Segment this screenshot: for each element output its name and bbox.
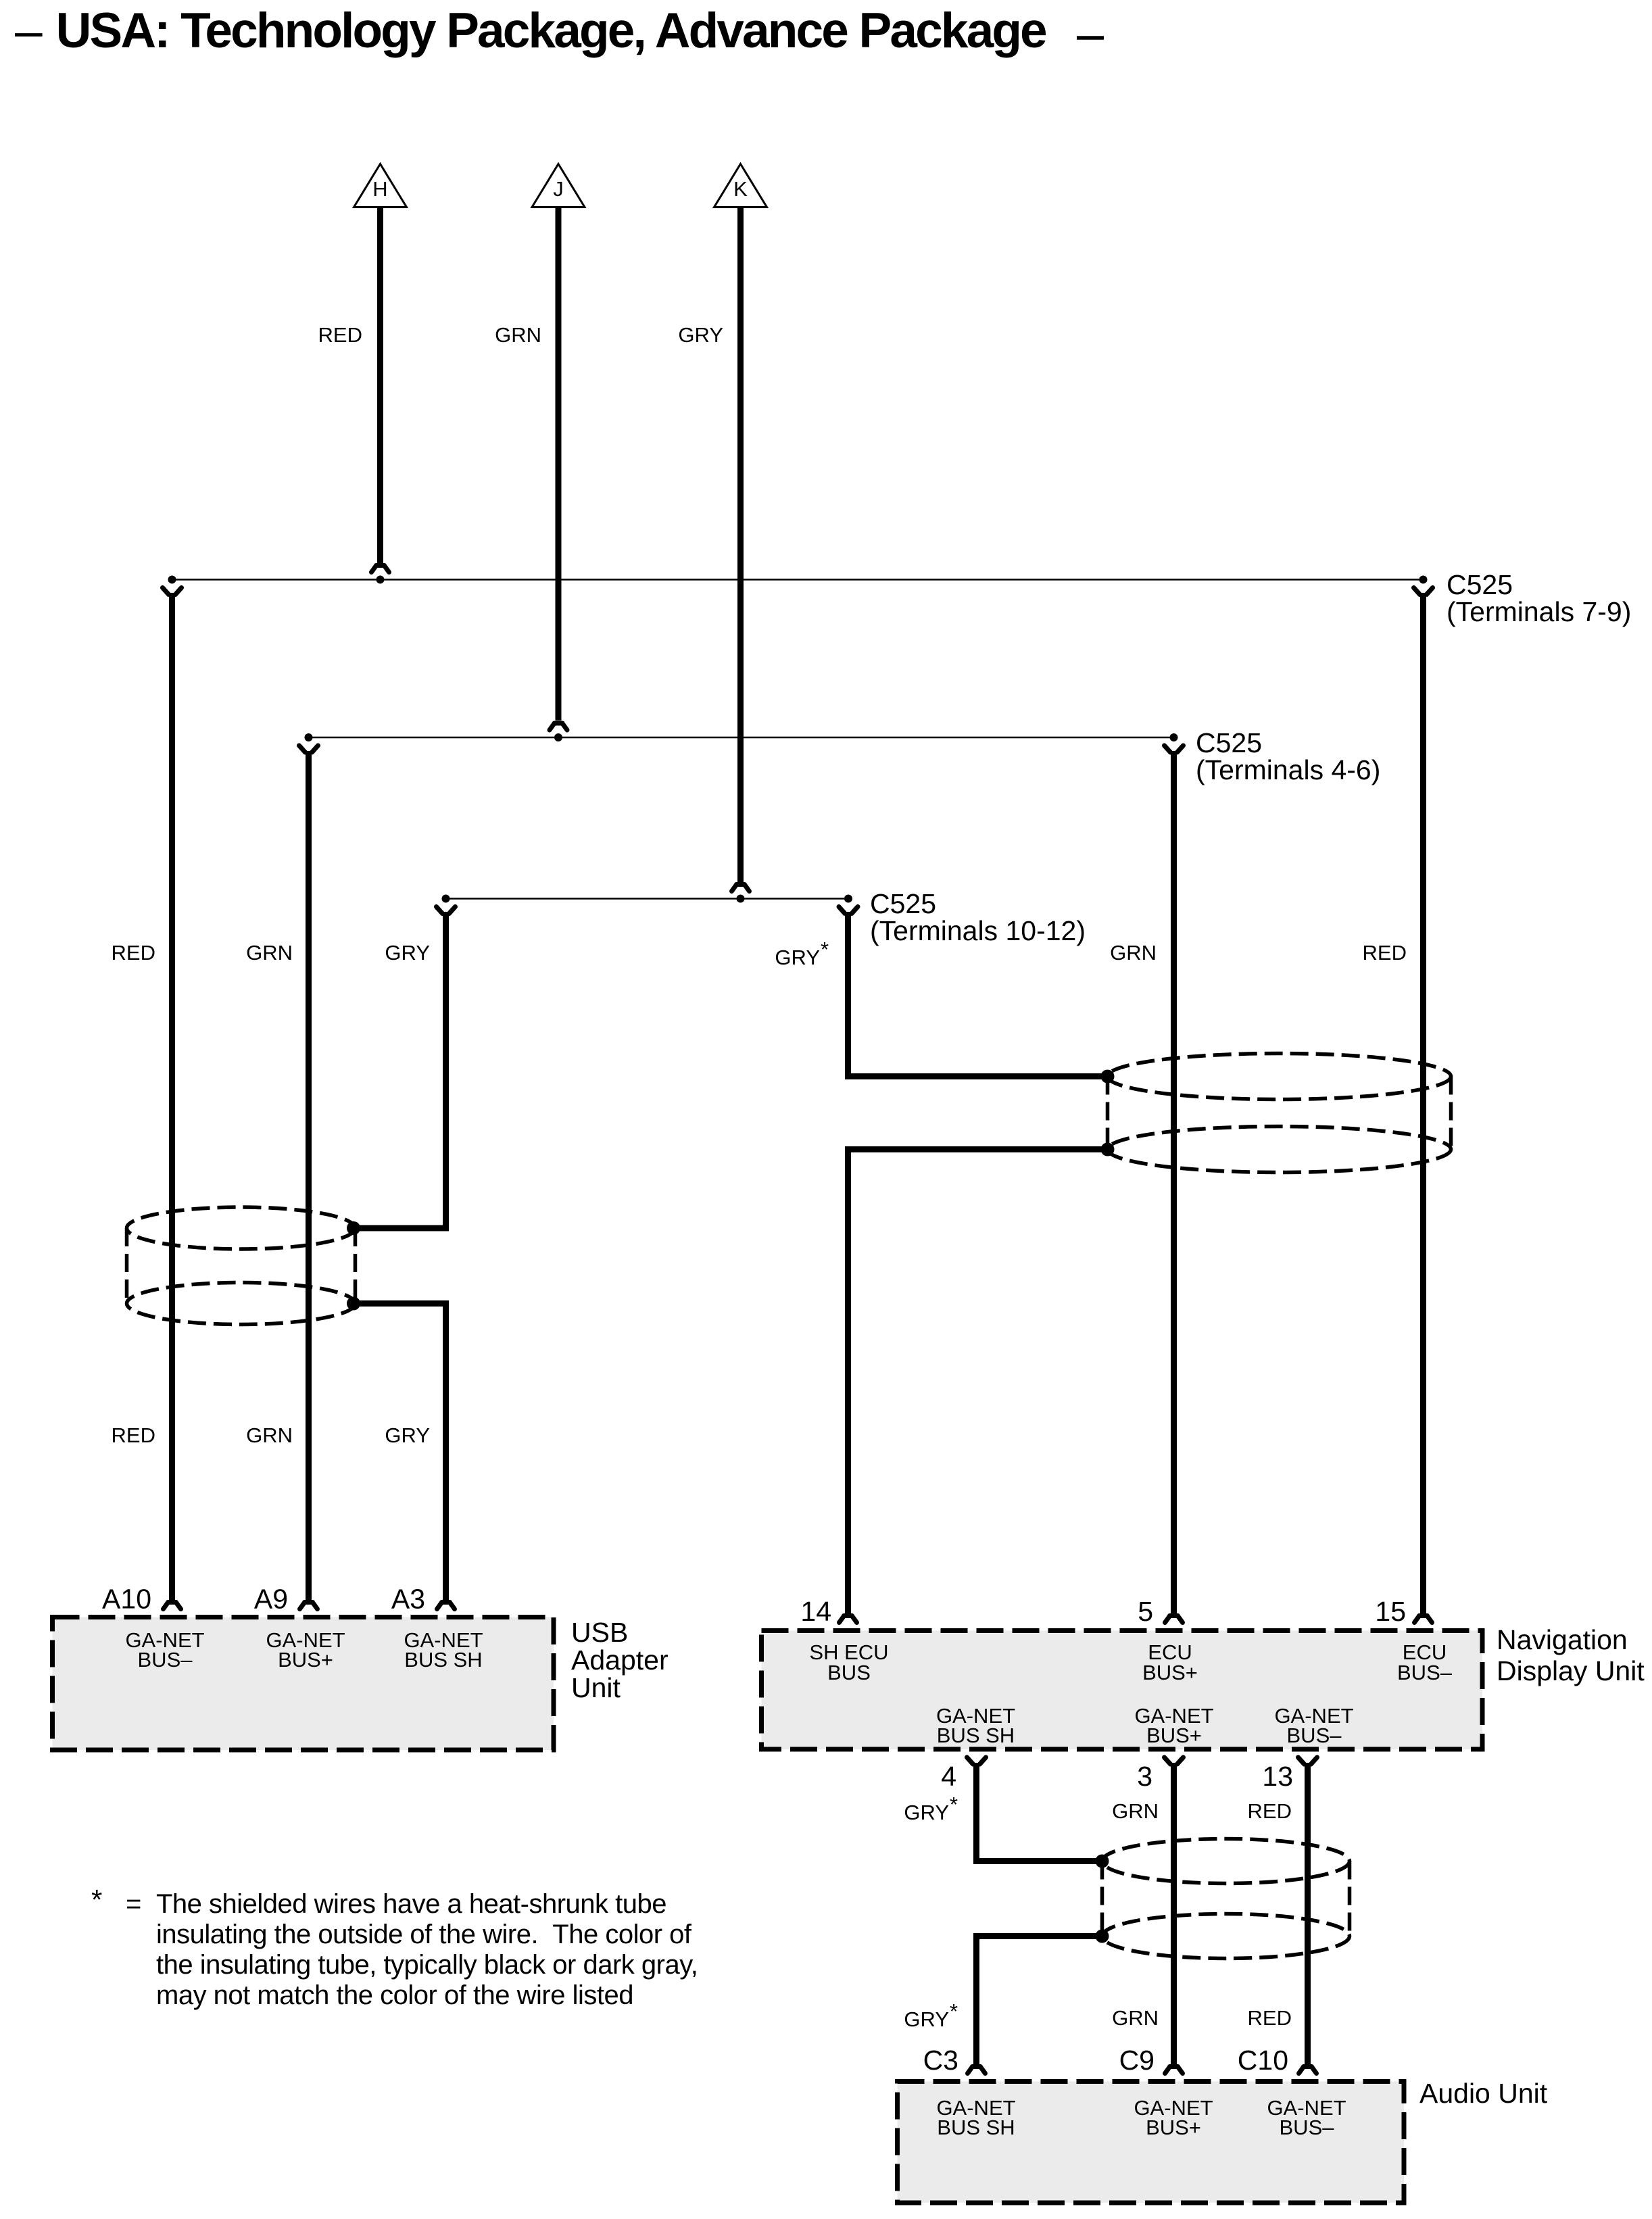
svg-text:GRY: GRY	[775, 946, 820, 969]
svg-text:GRY: GRY	[904, 1801, 949, 1824]
junction dot GRY at left shield top	[347, 1221, 360, 1235]
svg-text:–USA: Technology Package, Adva: –USA: Technology Package, Advance Packag…	[15, 3, 1046, 58]
svg-text:GRN: GRN	[1112, 1799, 1159, 1823]
svg-text:BUS–: BUS–	[138, 1648, 193, 1672]
svg-text:BUS+: BUS+	[1142, 1661, 1198, 1684]
male terminal J at bus line	[550, 723, 567, 741]
female terminal to GRY wire below line 3	[437, 907, 456, 914]
svg-text:Navigation: Navigation	[1497, 1624, 1628, 1655]
wire GRY left upper segment into shield	[354, 912, 446, 1228]
terminal symbol A10 (male) at USB box top	[164, 1603, 181, 1609]
svg-text:RED: RED	[318, 323, 362, 347]
svg-text:BUS SH: BUS SH	[937, 2116, 1015, 2139]
terminal symbol C10 (male) at Audio box top	[1299, 2067, 1317, 2074]
wire 4 GRY* into lower shield	[977, 1763, 1102, 1861]
svg-text:K: K	[733, 177, 748, 201]
USB Adapter Unit box	[53, 1617, 554, 1751]
junction dot GRY* at right shield bottom	[1101, 1143, 1115, 1156]
terminal symbol C9 (male) at Audio box top	[1165, 2067, 1183, 2074]
junction dot GRY at left shield bottom	[347, 1297, 360, 1311]
Audio Unit box	[898, 2082, 1405, 2203]
terminal symbol 14 (male) at Navigation box top	[840, 1616, 857, 1623]
svg-text:RED: RED	[112, 941, 155, 965]
female terminal to right GRN wire below line 2	[1165, 746, 1184, 752]
Navigation Display Unit box	[762, 1631, 1483, 1750]
bus line C525 terminals 4-6	[309, 737, 1174, 739]
node left end of line 2	[305, 733, 313, 741]
svg-text:Display Unit: Display Unit	[1497, 1655, 1645, 1686]
svg-text:BUS+: BUS+	[278, 1648, 333, 1672]
svg-text:BUS–: BUS–	[1397, 1661, 1453, 1684]
node right end of line 3	[844, 895, 852, 903]
svg-text:BUS: BUS	[827, 1661, 871, 1684]
bus line C525 terminals 7-9	[172, 579, 1424, 581]
svg-text:GRN: GRN	[1110, 941, 1157, 965]
svg-text:the insulating tube, typically: the insulating tube, typically black or …	[156, 1950, 698, 1980]
svg-text:(Terminals 10-12): (Terminals 10-12)	[870, 915, 1086, 946]
node right end of line 2	[1170, 733, 1178, 741]
female terminal to GRN wire below line 2	[299, 746, 318, 752]
junction dot GRY* at right shield top	[1101, 1070, 1115, 1083]
svg-text:BUS–: BUS–	[1287, 1724, 1342, 1747]
terminal symbol 4 (female) at Navigation box bottom	[967, 1757, 986, 1764]
connector triangle K	[714, 164, 767, 208]
svg-text:3: 3	[1137, 1761, 1152, 1792]
svg-text:=: =	[126, 1889, 141, 1919]
shield (left) around RED and GRN wires	[127, 1207, 356, 1325]
svg-text:*: *	[821, 937, 829, 961]
wire GRY* lower segment out of right shield	[848, 1150, 1108, 1615]
svg-text:BUS+: BUS+	[1146, 1724, 1202, 1747]
male terminal K at bus line	[732, 885, 750, 903]
svg-text:GRY: GRY	[385, 941, 430, 965]
svg-text:RED: RED	[1248, 2006, 1292, 2030]
bus line C525 terminals 10-12	[446, 898, 849, 900]
svg-text:GRY: GRY	[385, 1423, 430, 1447]
node left end of line 1	[168, 576, 176, 584]
svg-text:15: 15	[1375, 1596, 1406, 1627]
wire from J	[556, 208, 562, 721]
svg-text:*: *	[950, 1793, 958, 1816]
svg-text:13: 13	[1262, 1761, 1293, 1792]
female terminal to RED wire below line 1	[163, 588, 182, 595]
svg-text:BUS SH: BUS SH	[404, 1648, 482, 1672]
svg-text:GRY: GRY	[678, 323, 723, 347]
svg-text:RED: RED	[1248, 1799, 1292, 1823]
terminal symbol 13 (female) at Navigation box bottom	[1298, 1757, 1317, 1764]
svg-text:J: J	[553, 177, 564, 201]
wire GRY* upper segment into right shield	[848, 912, 1108, 1077]
svg-text:RED: RED	[112, 1423, 155, 1447]
wire 4 GRY* out of lower shield	[977, 1936, 1102, 2067]
svg-text:C10: C10	[1238, 2045, 1288, 2076]
terminal symbol 15 (male) at Navigation box top	[1415, 1616, 1432, 1623]
svg-text:RED: RED	[1363, 941, 1407, 965]
svg-text:BUS–: BUS–	[1280, 2116, 1335, 2139]
female terminal to right RED wire below line 1	[1414, 588, 1433, 595]
node right end of line 1	[1419, 576, 1428, 584]
svg-text:GRN: GRN	[495, 323, 541, 347]
svg-text:5: 5	[1138, 1596, 1153, 1627]
node left end of line 3	[442, 895, 450, 903]
svg-text:Audio Unit: Audio Unit	[1419, 2078, 1548, 2109]
wire GRN right vertical	[1171, 751, 1177, 1614]
junction dot at lower shield top	[1096, 1855, 1109, 1868]
wire RED right vertical	[1420, 593, 1426, 1614]
wire GRN left vertical	[306, 751, 312, 1601]
svg-text:USB: USB	[571, 1617, 628, 1648]
svg-text:(Terminals 4-6): (Terminals 4-6)	[1196, 754, 1380, 785]
svg-text:(Terminals 7-9): (Terminals 7-9)	[1447, 596, 1631, 627]
svg-text:A10: A10	[102, 1584, 151, 1615]
svg-text:insulating the outside of the: insulating the outside of the wire. The …	[156, 1920, 692, 1949]
svg-text:GRN: GRN	[1112, 2006, 1159, 2030]
svg-text:Adapter: Adapter	[571, 1644, 669, 1676]
wire GRY left lower segment out of shield	[354, 1304, 446, 1601]
terminal symbol C3 (male) at Audio box top	[968, 2067, 986, 2074]
wire 3 GRN vertical	[1171, 1763, 1177, 2066]
wire from H	[377, 208, 383, 564]
terminal symbol A9 (male) at USB box top	[300, 1603, 318, 1609]
shield (right) around GRN and RED wires	[1108, 1054, 1451, 1173]
svg-text:*: *	[950, 1999, 958, 2023]
svg-text:BUS SH: BUS SH	[937, 1724, 1015, 1747]
svg-text:14: 14	[800, 1596, 831, 1627]
connector triangle J	[532, 164, 585, 208]
svg-text:4: 4	[941, 1761, 956, 1792]
wire from K	[737, 208, 744, 883]
svg-text:C9: C9	[1119, 2045, 1155, 2076]
svg-text:GRN: GRN	[246, 1423, 293, 1447]
connector triangle H	[354, 164, 407, 208]
wire RED left vertical	[169, 593, 175, 1601]
male terminal H at bus line	[372, 566, 389, 584]
svg-text:GRN: GRN	[246, 941, 293, 965]
svg-text:H: H	[372, 177, 387, 201]
wire 13 RED vertical	[1305, 1763, 1311, 2066]
svg-text:may not match the color of the: may not match the color of the wire list…	[156, 1980, 633, 2010]
shield (lower) around GRN and RED wires	[1102, 1839, 1350, 1959]
svg-text:BUS+: BUS+	[1146, 2116, 1201, 2139]
junction dot at lower shield bottom	[1096, 1930, 1109, 1943]
svg-text:GRY: GRY	[904, 2007, 949, 2031]
female terminal to GRY* wire below line 3	[839, 907, 858, 914]
terminal symbol A3 (male) at USB box top	[437, 1603, 455, 1609]
terminal symbol 3 (female) at Navigation box bottom	[1165, 1757, 1184, 1764]
svg-text:A9: A9	[254, 1584, 288, 1615]
svg-text:A3: A3	[391, 1584, 425, 1615]
svg-text:Unit: Unit	[571, 1672, 621, 1703]
svg-text:The shielded wires have a heat: The shielded wires have a heat-shrunk tu…	[156, 1889, 666, 1919]
svg-text:C3: C3	[923, 2045, 958, 2076]
svg-text:*: *	[91, 1884, 102, 1916]
terminal symbol 5 (male) at Navigation box top	[1165, 1616, 1183, 1623]
